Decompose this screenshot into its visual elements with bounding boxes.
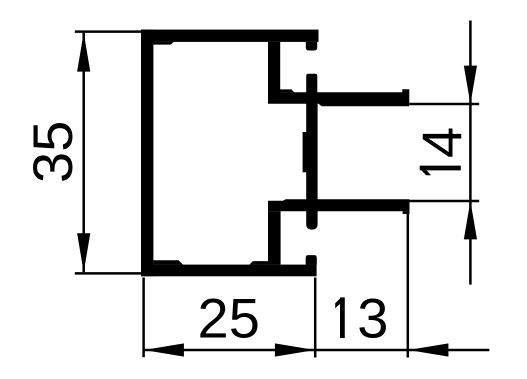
profile lower arm end lip — [403, 211, 410, 214]
profile upper arm root step — [280, 89, 294, 92]
extension line 25 left — [142, 278, 145, 358]
profile upper right wall — [268, 42, 280, 94]
profile upper arm — [268, 89, 409, 106]
profile bottom right lip — [306, 255, 317, 265]
arrowhead 35 down — [77, 233, 90, 272]
extension line 35 bottom — [75, 272, 145, 275]
arrowhead 35 up — [77, 33, 90, 72]
profile lower right wall — [268, 211, 281, 264]
dimension line 14 — [469, 21, 472, 285]
profile lower arm — [268, 199, 410, 211]
arrowhead 14 up — [464, 201, 477, 239]
profile bottom flange — [141, 265, 317, 277]
extension line 14 lower — [410, 200, 480, 203]
profile top right stub — [306, 42, 317, 51]
profile left wall — [141, 30, 153, 277]
arrowhead 13 right-outside — [408, 343, 448, 356]
profile center web upper stub — [306, 74, 317, 93]
dimension line 35 — [82, 33, 85, 273]
profile bottom flange right inner step — [249, 261, 268, 265]
svg-text:4: 4 — [410, 127, 473, 158]
svg-text:3: 3 — [357, 287, 388, 350]
extension line 25/13 middle — [314, 278, 317, 358]
svg-text:25: 25 — [198, 287, 260, 350]
profile top flange — [141, 30, 319, 42]
arrowhead 25 right — [275, 343, 315, 356]
arrowhead 25 left — [144, 343, 184, 356]
dimension text 13 digit 1 (drawn, serif-less) — [340, 297, 345, 338]
profile bottom flange left inner step — [153, 260, 183, 264]
dimension text 14 digit 1 (drawn, serif-less, rotated) — [420, 166, 461, 171]
extension line 13 right — [407, 214, 410, 358]
dimension line 25/13 — [144, 349, 490, 352]
extension line 35 top — [75, 30, 145, 33]
profile center web serration bump — [303, 132, 307, 172]
extension line 14 upper — [410, 103, 480, 106]
profile center web — [306, 92, 317, 230]
profile top flange inner step — [153, 42, 173, 45]
svg-text:35: 35 — [21, 121, 84, 183]
arrowhead 14 down — [464, 66, 477, 104]
